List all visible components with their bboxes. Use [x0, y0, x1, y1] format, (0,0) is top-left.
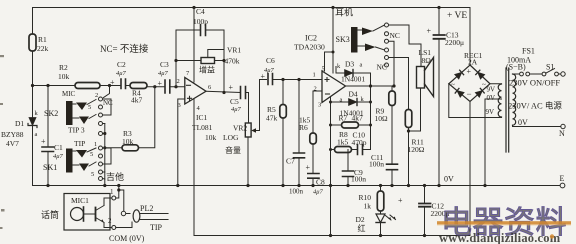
- svg-text:吉他: 吉他: [106, 171, 124, 182]
- resistor R5: [282, 80, 284, 105]
- capacitor C4: [201, 25, 206, 36]
- op-amp IC1 TL081 triangle: [185, 78, 206, 105]
- svg-text:FS1: FS1: [522, 47, 535, 56]
- node SK3 contact circles: [385, 23, 389, 67]
- LED D2: [380, 211, 382, 214]
- svg-text:4μ7: 4μ7: [313, 189, 324, 196]
- svg-text:TDA2030: TDA2030: [294, 43, 325, 52]
- svg-text:47k: 47k: [266, 114, 278, 123]
- transformer T1 primary winding: [513, 74, 516, 125]
- wire top rail to bridge: [469, 8, 471, 66]
- node junctions on top rail: [192, 6, 440, 9]
- svg-text:NC: NC: [390, 31, 400, 40]
- wire IC2 pin3 down: [330, 97, 332, 236]
- svg-text:+: +: [261, 72, 266, 81]
- svg-text:C1: C1: [54, 143, 63, 152]
- watermark big text: [437, 205, 571, 244]
- op-amp IC2 TDA2030 triangle: [322, 71, 346, 103]
- svg-text:0V: 0V: [444, 175, 454, 184]
- wire IC2 output node: [346, 85, 393, 87]
- node E terminal: [560, 183, 565, 188]
- capacitor C5: [241, 87, 246, 99]
- watermark orange line: [437, 221, 571, 224]
- svg-text:+: +: [229, 83, 234, 92]
- wire jack common column: [104, 124, 106, 186]
- svg-text:耳机: 耳机: [335, 7, 353, 18]
- resistor R6: [310, 133, 317, 144]
- resistor R11: [405, 110, 412, 128]
- wire bridge minus to bottom rail: [469, 102, 471, 236]
- capacitor C2: [121, 79, 126, 89]
- svg-text:话筒: 话筒: [41, 209, 59, 220]
- fuse FS1: [513, 73, 520, 75]
- wire 0V rail: [33, 185, 562, 187]
- svg-text:10k: 10k: [122, 137, 134, 146]
- node MIC1 terminal 1: [112, 196, 116, 200]
- svg-text:230V/ AC 电源: 230V/ AC 电源: [508, 101, 562, 111]
- resistor R2: [75, 83, 100, 89]
- switch SK3 headphone jack body: [351, 27, 358, 53]
- node junctions on bottom rail: [329, 234, 426, 237]
- potentiometer VR1: [201, 58, 215, 64]
- svg-text:a: a: [35, 131, 38, 138]
- capacitor C11: [387, 164, 398, 170]
- svg-text:4V7: 4V7: [6, 139, 19, 148]
- wire bridge AC left to lower 9V tap: [449, 84, 502, 118]
- wire +VE top rail: [33, 7, 471, 9]
- microphone symbol: [71, 208, 84, 221]
- transformer T1 core: [506, 68, 509, 152]
- wire IC1 plus input to 0V: [178, 99, 185, 186]
- svg-text:+: +: [158, 79, 163, 88]
- switch SK1 jack body: [66, 149, 73, 173]
- wire -VE bottom rail: [194, 235, 470, 237]
- svg-text:4μ7: 4μ7: [231, 106, 242, 113]
- svg-text:+: +: [41, 137, 46, 146]
- connector PL2 plug: [121, 211, 125, 215]
- svg-text:+: +: [306, 163, 311, 172]
- svg-text:4μ7: 4μ7: [53, 153, 64, 160]
- svg-text:10Ω: 10Ω: [375, 114, 389, 123]
- watermark orange dot: [550, 234, 554, 238]
- svg-text:www.dianqiziliao.com: www.dianqiziliao.com: [439, 231, 561, 244]
- diode D1 zener BZY88: [29, 118, 36, 126]
- node SK1 contact circles: [99, 146, 103, 181]
- svg-text:2: 2: [108, 217, 112, 225]
- scan noise specks: [0, 55, 5, 229]
- svg-text:a: a: [340, 97, 343, 104]
- svg-text:D2: D2: [356, 215, 365, 224]
- svg-text:R1: R1: [38, 35, 47, 44]
- svg-text:NC= 不连接: NC= 不连接: [100, 43, 149, 55]
- wire feedback right vertical: [370, 86, 372, 150]
- svg-text:C3: C3: [160, 60, 169, 69]
- svg-text:100p: 100p: [193, 17, 208, 26]
- svg-text:红: 红: [358, 223, 366, 233]
- svg-text:0V: 0V: [518, 118, 528, 127]
- svg-text:4k7: 4k7: [352, 114, 364, 123]
- svg-text:1k: 1k: [364, 202, 372, 211]
- wire R4 to C3: [147, 86, 165, 88]
- wire left main vertical: [32, 8, 34, 186]
- wire SK3 tip to speaker: [389, 25, 422, 67]
- node MIC1 terminal 2: [112, 226, 116, 230]
- svg-text:VR1: VR1: [227, 46, 241, 55]
- svg-text:IC2: IC2: [305, 34, 317, 43]
- svg-text:9V: 9V: [486, 108, 495, 116]
- svg-text:IC1: IC1: [196, 113, 208, 122]
- capacitor C3: [165, 80, 170, 93]
- svg-text:D1: D1: [15, 119, 24, 128]
- switch SK3 contact arms: [362, 28, 373, 36]
- node SK2 contact circles: [99, 97, 103, 136]
- svg-text:TIP: TIP: [74, 139, 85, 148]
- resistor R1: [29, 34, 36, 51]
- svg-text:4k7: 4k7: [131, 96, 143, 105]
- svg-text:+: +: [398, 196, 403, 205]
- switch SK2 jack body: [66, 101, 73, 125]
- diode D4: [331, 101, 349, 103]
- svg-text:NC: NC: [103, 99, 113, 107]
- svg-text:5: 5: [88, 104, 91, 111]
- svg-text:3: 3: [318, 102, 321, 109]
- wire SK1 contact links: [103, 148, 112, 179]
- svg-text:230V ON/OFF: 230V ON/OFF: [509, 78, 560, 88]
- svg-text:470k: 470k: [225, 57, 240, 66]
- svg-text:COM (0V): COM (0V): [109, 234, 145, 243]
- wire R3 to minus-input node: [139, 87, 155, 148]
- wire 0V centre tap: [485, 99, 502, 186]
- capacitor C10: [358, 145, 363, 155]
- potentiometer VR2: [245, 123, 251, 137]
- svg-text:MIC1: MIC1: [71, 196, 89, 205]
- svg-text:D4: D4: [349, 90, 358, 99]
- svg-text:R7: R7: [339, 114, 348, 123]
- node L terminal: [561, 72, 565, 76]
- svg-text:SK1: SK1: [43, 163, 57, 172]
- switch SK1 contact arms: [76, 150, 87, 158]
- resistor R4: [130, 83, 147, 89]
- svg-text:2200μ: 2200μ: [445, 38, 464, 47]
- node junctions on 0V rail: [46, 184, 486, 187]
- resistor R10: [380, 186, 382, 192]
- wire SK3 to R11: [389, 58, 409, 110]
- svg-text:D3: D3: [345, 60, 354, 69]
- wire SK3 to output: [389, 41, 395, 86]
- svg-text:1: 1: [94, 141, 97, 148]
- svg-text:C7: C7: [286, 157, 295, 166]
- switch S1: [542, 72, 546, 76]
- wire IC2 pin5 supply: [325, 8, 334, 74]
- wire IC1 output: [206, 91, 241, 92]
- svg-text:1k5: 1k5: [337, 138, 349, 147]
- wire jack tap from input row: [104, 86, 110, 98]
- svg-text:22k: 22k: [37, 44, 49, 53]
- transformer T1 secondary winding: [498, 84, 501, 117]
- loudspeaker LS1: [417, 67, 425, 89]
- svg-text:4μ7: 4μ7: [116, 70, 127, 77]
- svg-text:3: 3: [178, 102, 181, 109]
- svg-text:1: 1: [313, 72, 316, 79]
- wire primary bottom to N: [513, 125, 562, 126]
- svg-text:4μ7: 4μ7: [264, 67, 275, 74]
- wire IC1 pin7 supply: [193, 8, 195, 83]
- switch SK2 contact arms: [76, 103, 87, 111]
- svg-text:TIP 3: TIP 3: [68, 126, 85, 135]
- wire IC2 minus input to R6: [313, 91, 322, 133]
- svg-text:100n: 100n: [351, 175, 366, 184]
- svg-text:+: +: [427, 27, 432, 36]
- svg-text:2: 2: [177, 78, 180, 85]
- svg-text:C4: C4: [196, 7, 205, 16]
- svg-text:VR2: VR2: [233, 124, 247, 133]
- capacitor C6: [268, 74, 273, 85]
- svg-text:1N4001: 1N4001: [341, 75, 365, 84]
- svg-text:−: −: [467, 89, 472, 99]
- svg-text:4μ7: 4μ7: [158, 70, 169, 77]
- svg-text:TIP: TIP: [150, 223, 163, 232]
- svg-text:+: +: [110, 78, 115, 87]
- resistor R9: [389, 91, 396, 106]
- svg-text:2: 2: [95, 92, 98, 99]
- wire VR2 wiper to C6: [260, 80, 267, 131]
- capacitor C13: [438, 8, 440, 35]
- resistor R8: [331, 149, 335, 151]
- svg-text:~: ~: [482, 81, 486, 89]
- rectifier REC1 bridge: [449, 65, 490, 102]
- svg-text:MIC: MIC: [62, 90, 76, 98]
- svg-text:R6: R6: [299, 123, 308, 132]
- wire MIC1 common to PL2: [116, 222, 132, 228]
- svg-text:100n: 100n: [289, 188, 304, 196]
- svg-text:470p: 470p: [352, 138, 367, 147]
- svg-text:10k: 10k: [205, 133, 217, 142]
- svg-text:+ VE: + VE: [447, 11, 467, 21]
- capacitor C12: [424, 186, 426, 204]
- transistor inside MIC1: [95, 208, 97, 221]
- svg-text:5: 5: [91, 171, 94, 178]
- svg-text:5: 5: [90, 151, 93, 158]
- svg-text:1: 1: [110, 188, 114, 196]
- wire MIC1 output to PL2: [116, 186, 130, 214]
- capacitor C1: [47, 86, 49, 147]
- svg-text:S1: S1: [546, 63, 554, 72]
- svg-text:C8: C8: [316, 178, 325, 187]
- wire feedback top branch: [176, 30, 224, 93]
- svg-text:120Ω: 120Ω: [408, 145, 425, 154]
- svg-text:C5: C5: [230, 97, 239, 106]
- svg-text:音量: 音量: [225, 145, 241, 155]
- wire bridge AC right to upper 9V tap: [490, 83, 502, 85]
- svg-text:TL081: TL081: [192, 123, 213, 132]
- svg-text:2: 2: [314, 86, 317, 93]
- svg-text:PL2: PL2: [140, 204, 153, 213]
- resistor R3: [105, 147, 122, 149]
- capacitor C9: [347, 150, 349, 171]
- svg-text:5: 5: [322, 66, 325, 73]
- svg-text:2A: 2A: [468, 58, 478, 67]
- rectifier REC1 diodes: [455, 70, 485, 97]
- svg-text:BZY88: BZY88: [1, 130, 24, 139]
- svg-text:10k: 10k: [58, 72, 70, 81]
- diode D3: [336, 67, 345, 74]
- svg-text:LOG: LOG: [223, 133, 239, 142]
- svg-text:0V: 0V: [487, 94, 496, 102]
- wire IC1 pin4 supply: [193, 99, 195, 236]
- svg-text:E: E: [560, 174, 565, 183]
- svg-text:C6: C6: [266, 56, 275, 65]
- capacitor C7: [298, 80, 300, 153]
- svg-text:SK2: SK2: [44, 109, 58, 118]
- node input row dots: [31, 84, 111, 87]
- svg-text:(S−B): (S−B): [506, 63, 526, 72]
- microphone module MIC1 box: [64, 194, 110, 231]
- svg-text:8Ω: 8Ω: [422, 56, 432, 65]
- svg-text:C2: C2: [117, 60, 126, 69]
- resistor R7: [331, 124, 342, 126]
- svg-text:增益: 增益: [199, 65, 215, 75]
- svg-text:SK3: SK3: [336, 35, 350, 44]
- wire LS1 bottom to R11 node: [409, 88, 421, 131]
- svg-text:9V: 9V: [487, 86, 496, 94]
- wire input row y85.5: [33, 85, 121, 87]
- capacitor C8: [308, 174, 319, 179]
- svg-text:R2: R2: [59, 63, 68, 72]
- wire SK2 contact links: [103, 99, 112, 134]
- node N terminal: [561, 124, 565, 128]
- svg-text:+: +: [467, 67, 472, 76]
- svg-text:NC: NC: [377, 63, 387, 72]
- svg-text:a: a: [360, 62, 363, 69]
- svg-text:N: N: [559, 129, 565, 138]
- svg-text:100n: 100n: [369, 160, 384, 169]
- svg-text:~: ~: [451, 81, 455, 89]
